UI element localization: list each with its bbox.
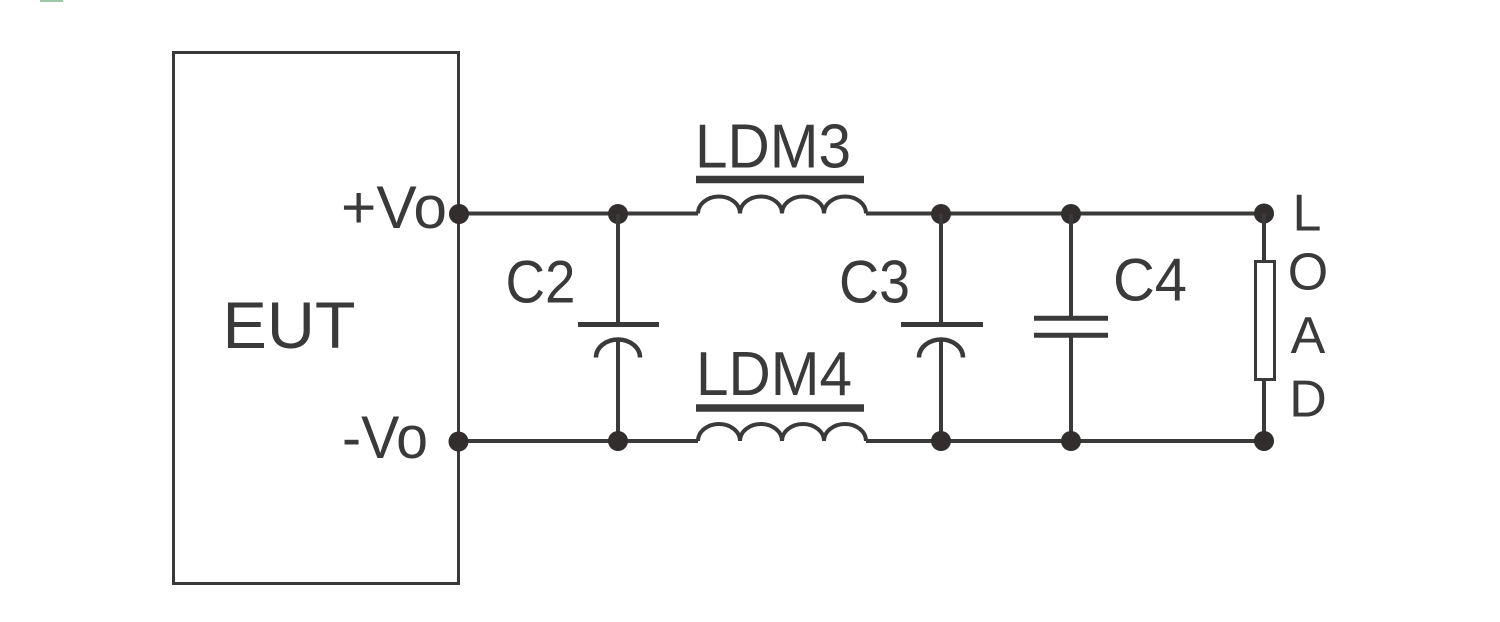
- label LDM4: [696, 340, 852, 409]
- label LOAD letter D: [1289, 371, 1327, 429]
- LDM4 underline bar: [696, 404, 864, 412]
- LOAD top junction dot: [1254, 204, 1274, 224]
- svg-text:+Vo: +Vo: [341, 174, 447, 241]
- label C3: [839, 249, 910, 316]
- capacitor C4 top plate: [1034, 316, 1108, 321]
- svg-text:O: O: [1288, 244, 1328, 302]
- svg-text:D: D: [1289, 371, 1327, 429]
- capacitor C3 bottom lead: [939, 340, 943, 441]
- svg-text:C3: C3: [839, 249, 910, 316]
- capacitor C2 curved bottom plate: [596, 340, 640, 358]
- wire top rail from LDM3 to LOAD: [866, 212, 1264, 216]
- label LOAD letter O: [1288, 244, 1328, 302]
- svg-text:LDM4: LDM4: [696, 340, 852, 409]
- svg-text:LDM3: LDM3: [695, 113, 851, 182]
- capacitor C3 bottom junction dot: [931, 431, 951, 451]
- LOAD bottom junction dot: [1254, 431, 1274, 451]
- svg-text:-Vo: -Vo: [342, 404, 428, 471]
- svg-text:C4: C4: [1113, 247, 1187, 314]
- inductor LDM4 coil: [698, 424, 866, 441]
- label -Vo: [342, 404, 428, 471]
- wire bottom rail from LDM4 to LOAD: [866, 439, 1264, 443]
- capacitor C4 bottom lead: [1069, 335, 1073, 441]
- node +Vo junction dot: [449, 204, 469, 224]
- label +Vo: [341, 174, 447, 241]
- capacitor C4 bottom plate: [1034, 333, 1108, 338]
- capacitor C2 top junction dot: [608, 204, 628, 224]
- wire bottom rail from -Vo node to LDM4: [458, 439, 698, 443]
- label LDM3: [695, 113, 851, 182]
- capacitor C4 top junction dot: [1061, 204, 1081, 224]
- capacitor C3 top junction dot: [931, 204, 951, 224]
- svg-text:A: A: [1291, 307, 1326, 365]
- label LOAD letter A: [1291, 307, 1326, 365]
- label C2: [506, 249, 576, 316]
- capacitor C2 bottom junction dot: [608, 431, 628, 451]
- capacitor C4 top lead: [1069, 214, 1073, 319]
- capacitor C2 top plate: [578, 322, 659, 327]
- inductor LDM3 coil: [698, 197, 866, 214]
- EUT box: [174, 53, 459, 584]
- svg-text:C2: C2: [506, 249, 576, 316]
- label LOAD letter L: [1293, 185, 1322, 243]
- capacitor C2 bottom lead: [616, 340, 620, 441]
- wire top rail from +Vo node to LDM3: [459, 212, 698, 216]
- LOAD resistor top lead: [1262, 214, 1266, 263]
- LDM3 underline bar: [696, 176, 864, 184]
- capacitor C4 bottom junction dot: [1061, 431, 1081, 451]
- capacitor C3 top lead: [939, 214, 943, 323]
- label C4: [1113, 247, 1187, 314]
- capacitor C3 top plate: [901, 322, 983, 327]
- LOAD resistor bottom lead: [1262, 379, 1266, 441]
- svg-text:L: L: [1293, 185, 1322, 243]
- node -Vo junction dot: [449, 432, 469, 452]
- capacitor C2 top lead: [616, 214, 620, 323]
- svg-text:EUT: EUT: [223, 288, 356, 362]
- resistor LOAD body: [1256, 262, 1275, 380]
- label EUT: [223, 288, 356, 362]
- capacitor C3 curved bottom plate: [919, 340, 963, 358]
